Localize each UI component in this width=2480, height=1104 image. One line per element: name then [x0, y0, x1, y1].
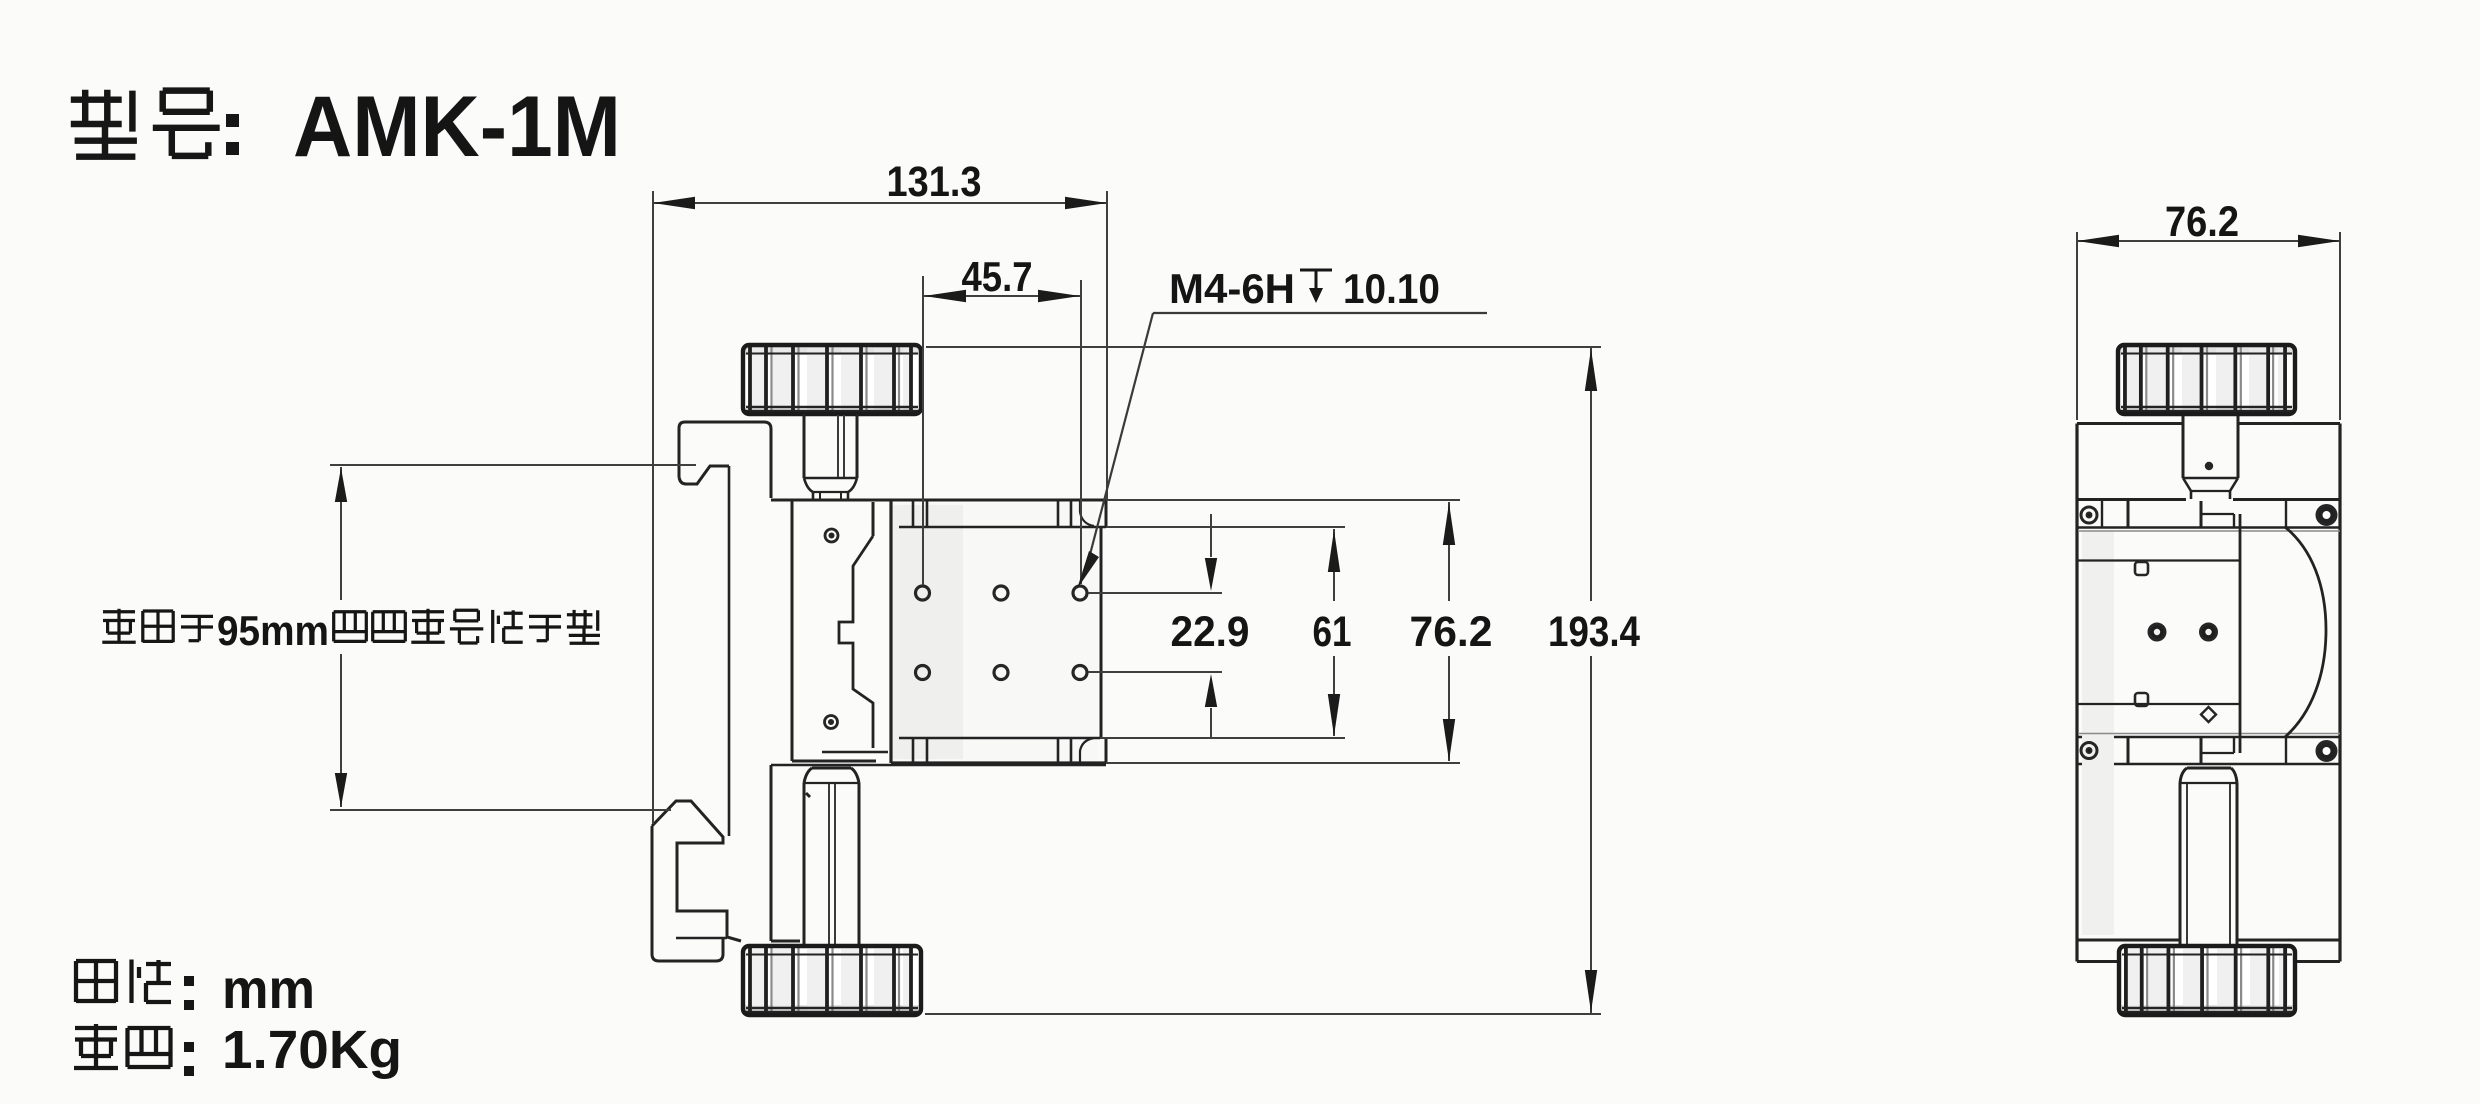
rail clamp: top bracket (fixed jaw over rail): [685, 466, 729, 484]
svg-text:M4-6H: M4-6H: [1169, 265, 1295, 312]
svg-text:193.4: 193.4: [1548, 608, 1640, 656]
svg-text:10.10: 10.10: [1343, 265, 1440, 312]
rail clamp: bottom hook (fixed jaw under rail): [652, 801, 741, 941]
svg-text:mm: mm: [222, 957, 315, 1020]
bottom plate: [771, 764, 1106, 766]
svg-text:AMK-1M: AMK-1M: [293, 79, 621, 175]
side plate inner face: [2082, 530, 2114, 935]
svg-text:61: 61: [1313, 608, 1352, 656]
knob mount line y=500: [771, 499, 1106, 502]
side plate center holes: [2149, 624, 2165, 640]
units + weight notes: [74, 961, 78, 1002]
svg-text:76.2: 76.2: [1410, 608, 1493, 656]
body hole upper: [825, 529, 838, 542]
svg-text:45.7: 45.7: [962, 253, 1033, 300]
title: model label 型号：AMK-1M: [71, 96, 122, 102]
dimension 61: [1106, 526, 1345, 528]
plate top slots: [912, 501, 915, 527]
svg-text:95mm: 95mm: [217, 607, 329, 654]
side view outer body: [2075, 424, 2078, 962]
plate bottom slots: [912, 738, 915, 762]
extension line left of 131.3 (x=653): [652, 191, 654, 824]
plate holes 2 rows x 3 cols: [916, 586, 930, 600]
svg-text:1.70Kg: 1.70Kg: [222, 1020, 402, 1080]
side plate small marks: [2135, 562, 2148, 575]
dimension 76.2 plate height: [1106, 499, 1460, 501]
side top knurled knob: [2119, 346, 2294, 413]
svg-text:22.9: 22.9: [1171, 608, 1250, 656]
side bottom knurled knob: [2120, 947, 2294, 1014]
dimension 193.4 overall height: [926, 346, 1601, 348]
side top shaft: [2182, 413, 2185, 478]
extension line right of 131.3 (x=1107): [1106, 191, 1108, 500]
square plate (76.2): [893, 503, 1098, 761]
dimension 22.9 hole spacing: [1088, 592, 1222, 594]
bottom shaft: [812, 767, 851, 770]
dimension note: fits 95mm dovetail rail: [103, 610, 135, 613]
top knob shaft: [803, 414, 806, 478]
svg-text:131.3: 131.3: [887, 158, 982, 206]
plate corner details right: [1080, 501, 1094, 526]
body hole lower: [825, 716, 838, 729]
side view carriage top band: [2077, 526, 2340, 529]
top knurled knob: [744, 346, 920, 413]
rail right edge: [728, 466, 731, 836]
svg-text:76.2: 76.2: [2165, 198, 2239, 246]
side bottom shaft: [2187, 767, 2231, 770]
bottom knurled knob: [744, 947, 920, 1014]
side view carriage bottom band: [2077, 736, 2340, 739]
side corner screws: [2081, 507, 2097, 523]
side D-shaped arc cutout: [2285, 527, 2326, 737]
body column: [791, 500, 794, 761]
